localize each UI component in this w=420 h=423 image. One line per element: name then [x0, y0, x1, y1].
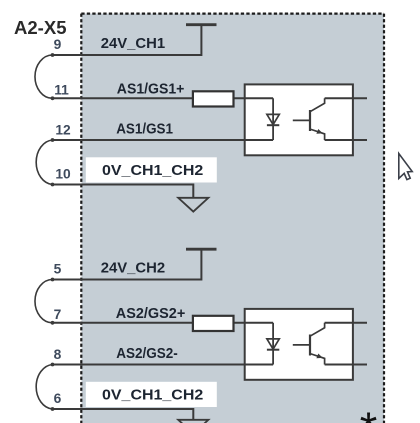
node pin 10 [51, 183, 55, 187]
node pin 11 [51, 96, 55, 100]
phototransistor Q2 base bar [309, 335, 311, 356]
phototransistor Q1 emitter [310, 129, 325, 140]
24V rail T-bar [186, 23, 217, 26]
dashed border right [383, 14, 385, 423]
output wire top [325, 322, 367, 324]
node pin 12 [51, 138, 55, 142]
loop arc pins 5-7 [35, 280, 53, 323]
svg-text:7: 7 [54, 307, 62, 322]
phototransistor Q1 collector [310, 98, 325, 112]
wire pin12 (AS1/GS1) [53, 139, 274, 141]
node pin 5 [51, 278, 55, 282]
output wire top [325, 97, 367, 99]
svg-text:11: 11 [54, 83, 69, 98]
LED D1 triangle [267, 114, 279, 124]
LED cathode wire vertical [272, 323, 274, 365]
label background 0V_CH1_CH2 [86, 157, 217, 182]
node pin 8 [51, 363, 55, 367]
svg-text:AS1/GS1: AS1/GS1 [116, 121, 173, 138]
panel background [82, 14, 385, 423]
svg-text:AS2/GS2-: AS2/GS2- [116, 345, 178, 362]
LED cathode wire vertical [272, 98, 274, 140]
dashed border top [81, 13, 384, 15]
svg-text:5: 5 [54, 261, 62, 276]
phototransistor Q2 collector [310, 323, 325, 337]
svg-text:6: 6 [54, 391, 62, 406]
LED D2 cathode bar [267, 349, 279, 351]
wire pin6 (0V) to ground [53, 409, 194, 420]
wire pin7 (AS2/GS2+) [53, 322, 274, 324]
wire pin9 to 24V rail [53, 25, 202, 55]
resistor R1 [193, 91, 234, 106]
ground symbol [178, 198, 208, 212]
svg-text:12: 12 [55, 122, 71, 137]
resistor R2 [193, 316, 234, 331]
svg-text:AS2/GS2+: AS2/GS2+ [116, 305, 186, 322]
svg-text:24V_CH1: 24V_CH1 [101, 35, 166, 52]
optocoupler U1 body [245, 84, 353, 155]
wire pin11 (AS1/GS1+) [53, 97, 274, 99]
loop arc pins 9-11 [35, 55, 53, 98]
ground symbol (clipped) [178, 420, 208, 423]
wire pin8 (AS2/GS2-) [53, 364, 274, 366]
wire pin5 to 24V rail [53, 249, 202, 279]
svg-text:*: * [360, 403, 378, 423]
svg-text:10: 10 [55, 166, 71, 181]
LED D1 cathode bar [267, 124, 279, 126]
24V rail T-bar [186, 248, 217, 251]
optocoupler U2 body [245, 309, 353, 380]
LED D2 triangle [267, 339, 279, 349]
svg-text:24V_CH2: 24V_CH2 [101, 259, 165, 276]
dashed border left [80, 14, 82, 423]
phototransistor Q1 base lead [293, 119, 310, 121]
phototransistor Q1 base bar [309, 110, 311, 131]
output wire bottom [325, 139, 367, 141]
emitter arrow [316, 354, 322, 359]
svg-text:8: 8 [54, 347, 62, 362]
output wire bottom [325, 364, 367, 366]
svg-text:0V_CH1_CH2: 0V_CH1_CH2 [102, 386, 203, 403]
label background 0V_CH1_CH2 [86, 382, 217, 407]
svg-text:AS1/GS1+: AS1/GS1+ [117, 81, 185, 98]
svg-text:9: 9 [54, 37, 62, 52]
node pin 9 [51, 53, 55, 57]
node pin 7 [51, 321, 55, 325]
phototransistor Q2 emitter [310, 354, 325, 365]
node pin 6 [51, 407, 55, 411]
mouse cursor [399, 154, 412, 180]
wire pin10 (0V) to ground [53, 185, 194, 198]
loop arc pins 8-6 [36, 365, 52, 410]
phototransistor Q2 base lead [293, 344, 310, 346]
svg-text:A2-X5: A2-X5 [14, 18, 67, 38]
svg-text:0V_CH1_CH2: 0V_CH1_CH2 [102, 162, 203, 179]
emitter arrow [316, 129, 322, 134]
loop arc pins 12-10 [36, 140, 52, 185]
